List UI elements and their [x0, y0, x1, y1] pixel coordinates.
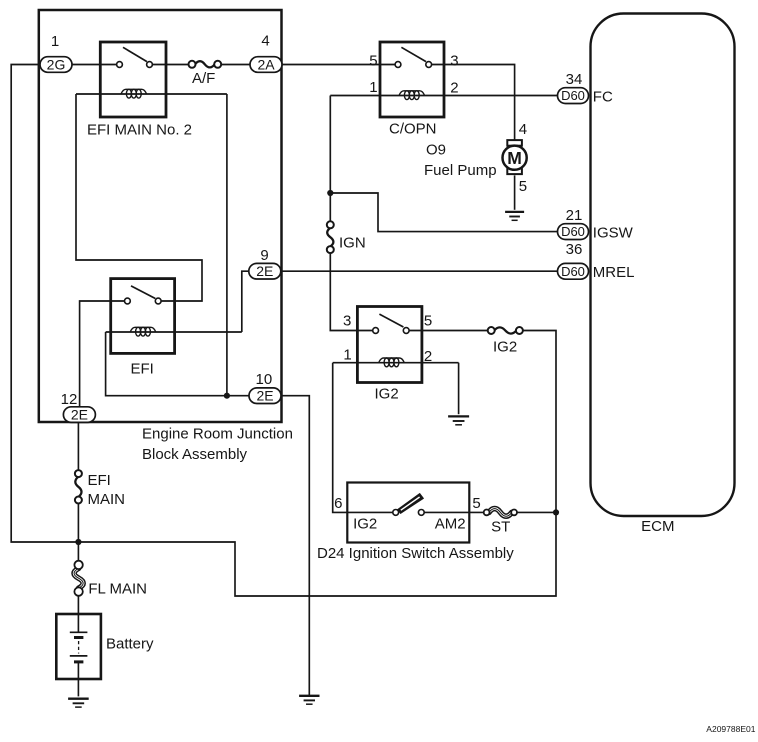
wire: fuse EFI MAIN to fusible link FL MAIN — [77, 503, 79, 560]
wire: EFI MAIN No. 2 relay coil lead line — [76, 93, 227, 95]
relay IG2 (box, contacts, coil) — [357, 307, 422, 383]
wire: node 2A to C/OPN relay pin 5 — [282, 64, 395, 66]
wire: fuse ST to branch node — [517, 511, 556, 513]
svg-text:21: 21 — [566, 207, 583, 224]
svg-text:5: 5 — [424, 312, 432, 329]
connector D60 pin 36 MREL — [558, 241, 635, 281]
svg-text:3: 3 — [343, 312, 351, 329]
fuse IG2 — [494, 327, 516, 333]
svg-text:EFI: EFI — [88, 472, 111, 489]
wire: EFI relay coil right terminal up to node 2E pin 9 — [242, 271, 249, 332]
svg-text:EFI: EFI — [131, 361, 154, 378]
relay EFI (box, contacts, coil) — [111, 279, 175, 354]
svg-text:Engine Room Junction: Engine Room Junction — [142, 426, 293, 443]
label O9 Fuel Pump — [424, 141, 497, 179]
svg-text:O9: O9 — [426, 141, 446, 158]
svg-text:34: 34 — [566, 71, 583, 88]
ground (battery) — [68, 698, 89, 700]
motor O9 fuel pump — [502, 140, 526, 174]
junction: C/OPN coil / IGN fuse / IGSW branch — [327, 190, 333, 196]
svg-text:IG2: IG2 — [493, 339, 517, 356]
switch D24 ignition switch assembly — [347, 483, 469, 543]
svg-text:EFI MAIN No. 2: EFI MAIN No. 2 — [87, 121, 192, 138]
svg-text:2A: 2A — [257, 56, 275, 72]
wire: node 2E pin 12 down to fuse EFI MAIN — [77, 422, 79, 470]
svg-text:C/OPN: C/OPN — [389, 121, 437, 138]
svg-text:M: M — [507, 148, 522, 168]
svg-text:D60: D60 — [561, 88, 585, 103]
svg-text:1: 1 — [369, 79, 377, 96]
wire: C/OPN relay pin 3 to fuel pump pin 4 — [432, 65, 515, 141]
svg-text:12: 12 — [61, 391, 78, 408]
svg-text:D60: D60 — [561, 224, 585, 239]
svg-text:A/F: A/F — [192, 70, 215, 87]
svg-text:Block Assembly: Block Assembly — [142, 446, 248, 463]
fuse IGN — [327, 228, 333, 247]
fusible link FL MAIN — [74, 568, 83, 588]
node 2A pin 4 connector — [250, 57, 282, 73]
relay C/OPN (box, contacts, coil) — [380, 42, 444, 117]
ground (junction block 2E pin 10) — [299, 695, 319, 697]
svg-text:D24 Ignition Switch Assembly: D24 Ignition Switch Assembly — [317, 545, 514, 562]
ground (IG2 relay coil) — [448, 415, 469, 417]
junction: EFI MAIN coil terminal on 2E-10/2E-12 net — [224, 393, 230, 399]
svg-text:6: 6 — [334, 495, 342, 512]
wire: node 2E pin 9 to ECM MREL — [281, 270, 558, 272]
svg-text:MREL: MREL — [593, 264, 635, 281]
svg-text:FL MAIN: FL MAIN — [88, 580, 147, 597]
svg-text:1: 1 — [343, 347, 351, 364]
svg-text:5: 5 — [472, 495, 480, 512]
svg-text:IG2: IG2 — [353, 516, 377, 533]
svg-text:ECM: ECM — [641, 518, 674, 535]
svg-text:FC: FC — [593, 88, 613, 105]
node 2E pin 10 connector — [249, 388, 281, 404]
svg-text:A209788E01: A209788E01 — [706, 724, 755, 734]
junction: battery positive feed — [75, 539, 81, 545]
junction: AM2 feed / fuse IG2 / fuse ST — [553, 509, 559, 515]
wire: EFI MAIN No. 2 coil right terminal down to node 2E pin 10 net — [226, 94, 228, 396]
fuse A/F — [195, 61, 215, 67]
svg-text:MAIN: MAIN — [88, 491, 126, 508]
svg-text:ST: ST — [491, 519, 510, 536]
svg-text:D60: D60 — [561, 264, 585, 279]
svg-text:2G: 2G — [47, 56, 66, 72]
wire: EFI MAIN No. 2 relay switch to fuse A/F — [152, 64, 189, 66]
wire: IG2 relay coil pin 2 to ground — [458, 363, 460, 415]
svg-text:9: 9 — [260, 247, 268, 264]
svg-text:10: 10 — [256, 371, 273, 388]
fuse ST (fusible link style) — [489, 509, 512, 517]
wire: IG2 relay coil pin 1 to ignition switch IG2 contact — [333, 363, 393, 513]
wire: fuel pump pin 5 to ground — [514, 175, 516, 209]
wire: fusible link FL MAIN to battery positive plate — [77, 596, 79, 632]
wire: battery feed from node 2G down left side and along bottom to ignition switch AM2 branch — [11, 65, 556, 597]
label Engine Room Junction Block Assembly — [142, 426, 293, 463]
svg-text:Battery: Battery — [106, 635, 154, 652]
junction block box: Engine Room Junction Block Assembly — [39, 10, 282, 422]
wire: EFI relay coil lead line — [106, 331, 242, 333]
svg-text:2: 2 — [450, 80, 458, 97]
wire: IG2 relay coil lead line — [333, 362, 459, 364]
svg-text:4: 4 — [261, 32, 269, 49]
battery — [56, 614, 101, 679]
wire: C/OPN relay coil pin 1 down to fuse IGN — [329, 96, 331, 222]
wire: ignition switch AM2 contact to fuse ST — [424, 511, 483, 513]
svg-text:4: 4 — [519, 121, 527, 138]
wire: node 2G to EFI MAIN No. 2 relay switch — [72, 64, 117, 66]
svg-text:5: 5 — [369, 52, 377, 69]
wire: EFI MAIN No. 2 coil left terminal to EFI relay switch output — [76, 94, 202, 301]
node 2G pin 1 connector — [40, 57, 72, 73]
svg-text:Fuel Pump: Fuel Pump — [424, 162, 497, 179]
label EFI MAIN fuse — [88, 472, 126, 508]
fuse EFI MAIN — [75, 477, 81, 497]
svg-text:2: 2 — [424, 348, 432, 365]
wire: IG2 relay pin 5 to fuse IG2 — [409, 330, 488, 332]
svg-text:2E: 2E — [256, 263, 273, 279]
ECM block — [591, 14, 735, 517]
svg-text:IGSW: IGSW — [593, 224, 634, 241]
wire: fuse IGN to IG2 relay pin 3 — [330, 253, 372, 331]
wire: fuse A/F to node 2A — [220, 64, 250, 66]
svg-text:IG2: IG2 — [375, 386, 399, 403]
wire: junction to ECM IGSW — [330, 193, 557, 232]
wire: battery negative plate to ground — [77, 662, 79, 697]
svg-text:1: 1 — [51, 33, 59, 50]
svg-text:3: 3 — [450, 52, 458, 69]
svg-text:5: 5 — [519, 178, 527, 195]
svg-text:36: 36 — [566, 241, 583, 258]
wire: node 2E pin 10 to ground — [281, 396, 309, 696]
wire: fuse IG2 to ignition switch branch node — [523, 331, 556, 513]
svg-text:2E: 2E — [256, 388, 273, 404]
wire: C/OPN relay coil lead to ECM FC — [330, 95, 557, 97]
wire: EFI relay switch input to node 2E pin 12 — [80, 301, 125, 407]
node 2E pin 9 connector — [249, 263, 281, 279]
svg-text:2E: 2E — [71, 407, 88, 423]
svg-text:AM2: AM2 — [435, 516, 466, 533]
connector D60 pin 34 FC — [558, 71, 613, 106]
wire: EFI relay coil left terminal to node 2E pin 10 — [106, 332, 249, 396]
connector D60 pin 21 IGSW — [558, 207, 634, 241]
relay EFI MAIN No. 2 (box, contacts, coil) — [100, 42, 166, 117]
ground (fuel pump) — [505, 211, 524, 213]
svg-text:IGN: IGN — [339, 234, 366, 251]
node 2E pin 12 connector — [63, 407, 95, 423]
